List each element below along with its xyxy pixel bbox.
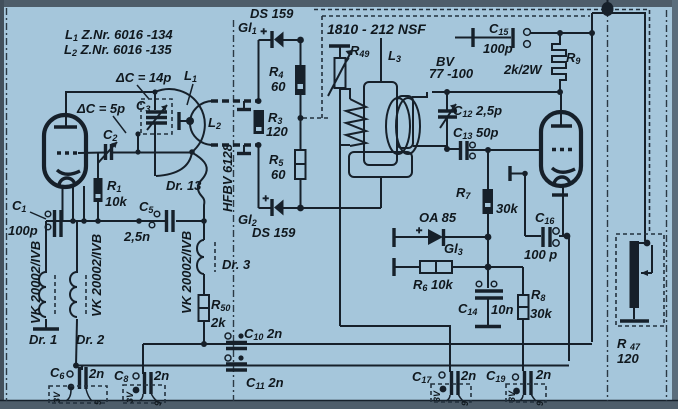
svg-text:Dr. 13: Dr. 13 [166,178,202,193]
svg-text:2n: 2n [153,368,169,383]
svg-text:Dr. 3: Dr. 3 [222,257,251,272]
svg-text:120: 120 [266,124,288,139]
svg-text:9: 9 [460,401,470,406]
svg-text:77 -100: 77 -100 [429,66,474,81]
svg-text:2k/2W: 2k/2W [503,62,543,77]
svg-text:9: 9 [535,401,545,406]
svg-text:L2 Z.Nr. 6016 -135: L2 Z.Nr. 6016 -135 [64,42,172,58]
svg-text:3V: 3V [507,390,517,402]
svg-text:30k: 30k [496,201,518,216]
svg-text:100 p: 100 p [524,247,557,262]
svg-text:3V: 3V [432,390,442,402]
svg-text:1810 - 212 NSF: 1810 - 212 NSF [327,21,426,37]
svg-text:R6 10k: R6 10k [413,277,453,293]
svg-text:Dr. 2: Dr. 2 [76,332,105,347]
svg-text:VK 20002/IVB: VK 20002/IVB [179,231,194,314]
svg-text:C12 2,5p: C12 2,5p [453,103,502,119]
svg-text:2k: 2k [210,315,226,330]
svg-text:VK 20002/IVB: VK 20002/IVB [28,241,43,324]
svg-text:C10 2n: C10 2n [244,326,282,342]
svg-text:DS 159: DS 159 [252,225,296,240]
svg-text:2,5n: 2,5n [123,229,150,244]
svg-text:C13 50p: C13 50p [453,125,498,141]
svg-text:30k: 30k [530,306,552,321]
svg-text:3V: 3V [52,391,62,403]
svg-text:2n: 2n [460,368,476,383]
svg-text:OA 85: OA 85 [419,210,457,225]
svg-text:C11 2n: C11 2n [246,375,284,391]
svg-text:HFBV 6128: HFBV 6128 [220,143,235,212]
svg-text:L1 Z.Nr. 6016 -134: L1 Z.Nr. 6016 -134 [65,27,173,43]
svg-text:2n: 2n [535,367,551,382]
svg-text:DS 159: DS 159 [250,6,294,21]
svg-text:3V: 3V [125,391,135,403]
svg-text:2n: 2n [88,366,104,381]
svg-text:100p: 100p [8,223,38,238]
svg-text:100p: 100p [483,41,513,56]
svg-text:ΔC = 14p: ΔC = 14p [115,70,171,85]
svg-text:120: 120 [617,351,639,366]
svg-text:10n: 10n [491,302,513,317]
svg-text:9: 9 [93,400,103,405]
svg-text:60: 60 [271,167,286,182]
svg-text:9: 9 [153,401,163,406]
svg-text:10k: 10k [105,194,127,209]
svg-text:ΔC = 5p: ΔC = 5p [76,101,125,116]
svg-text:Dr. 1: Dr. 1 [29,332,57,347]
svg-text:VK 20002/IVB: VK 20002/IVB [89,234,104,317]
svg-text:60: 60 [271,79,286,94]
